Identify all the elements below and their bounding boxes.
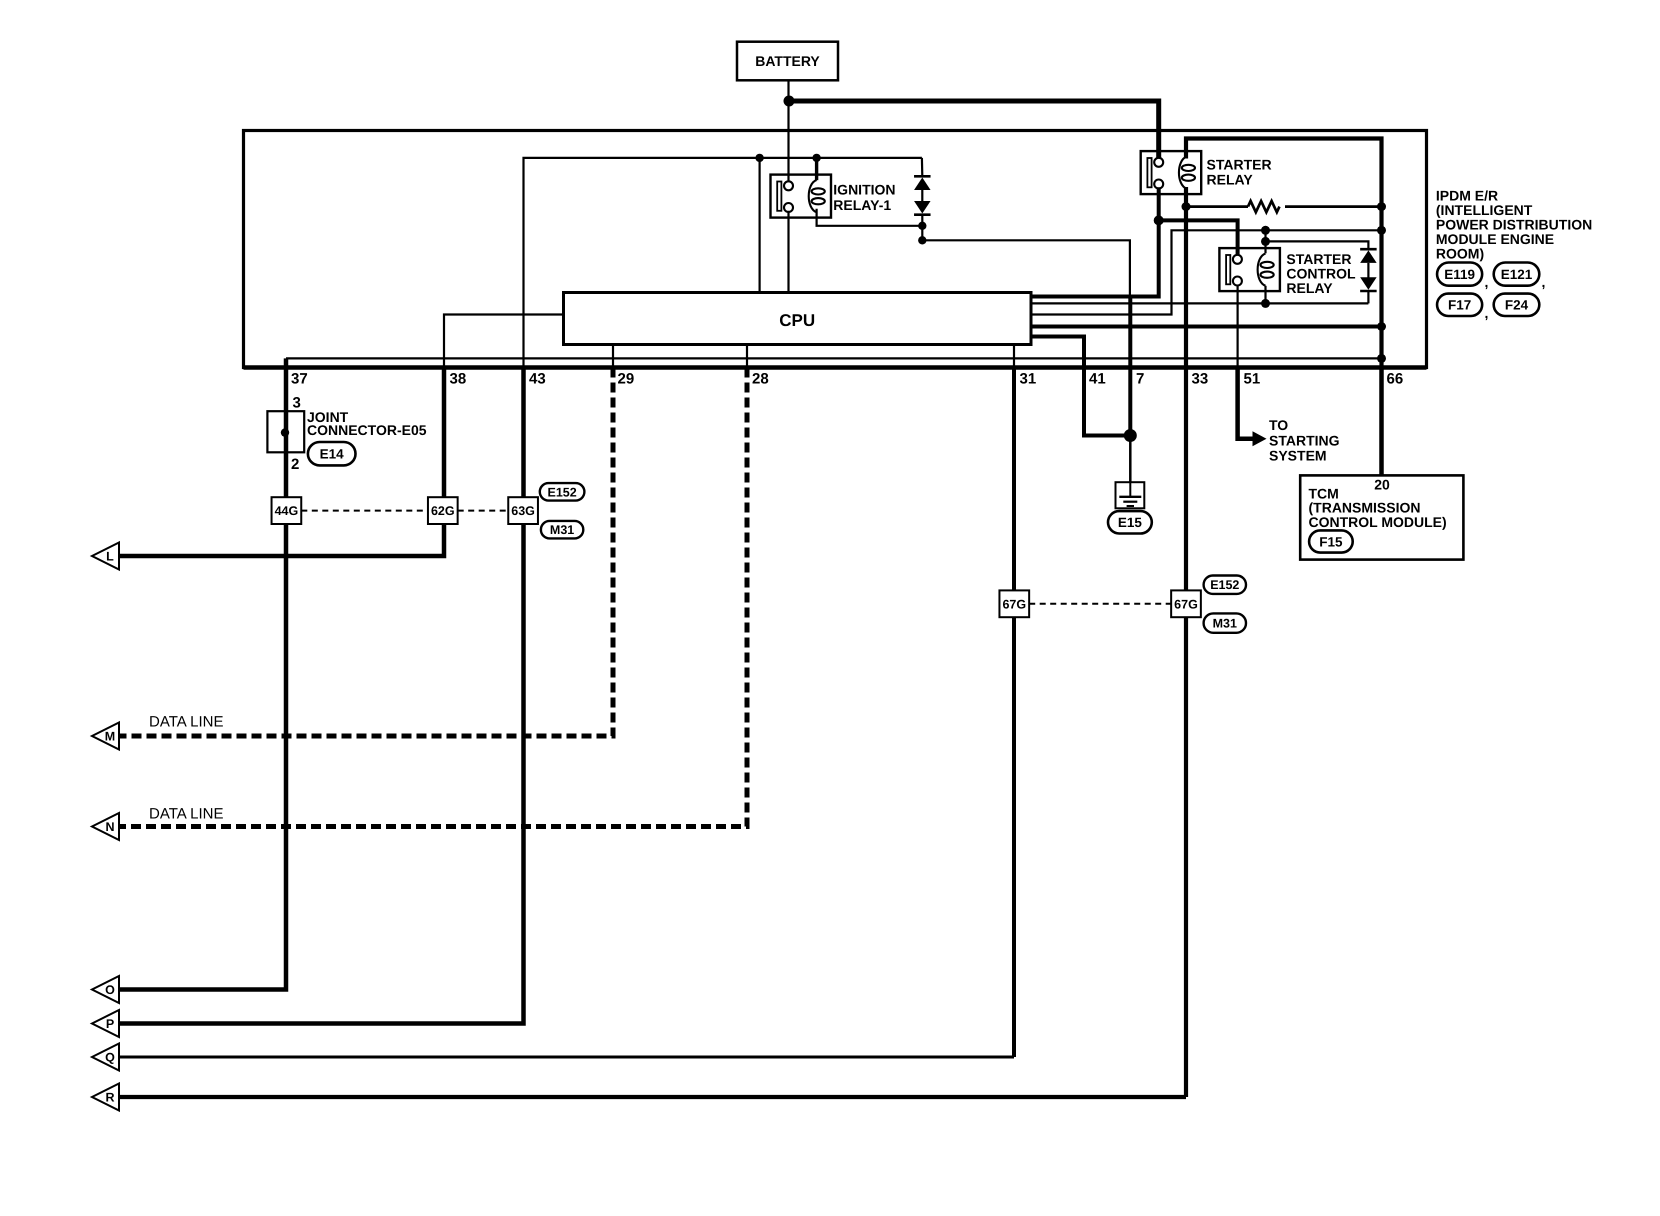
svg-text:CONNECTOR-E05: CONNECTOR-E05: [307, 422, 427, 438]
svg-text:51: 51: [1244, 371, 1261, 388]
svg-text:N: N: [105, 820, 114, 834]
svg-text:E152: E152: [547, 485, 576, 499]
svg-text:M: M: [105, 730, 115, 744]
svg-text:37: 37: [291, 371, 308, 388]
svg-text:CPU: CPU: [779, 311, 815, 330]
svg-text:,: ,: [1485, 305, 1489, 321]
svg-text:62G: 62G: [431, 504, 455, 518]
svg-text:E121: E121: [1501, 267, 1533, 282]
svg-text:IGNITION: IGNITION: [833, 182, 895, 198]
svg-text:E152: E152: [1210, 578, 1239, 592]
svg-text:Q: Q: [105, 1051, 115, 1065]
svg-text:TO: TO: [1269, 417, 1288, 433]
svg-text:F17: F17: [1448, 298, 1471, 313]
svg-text:O: O: [105, 983, 115, 997]
svg-text:L: L: [106, 550, 114, 564]
svg-text:F15: F15: [1319, 534, 1343, 549]
svg-text:41: 41: [1089, 371, 1106, 388]
svg-text:31: 31: [1020, 371, 1037, 388]
svg-text:M31: M31: [1213, 617, 1237, 631]
svg-text:2: 2: [291, 456, 299, 473]
svg-text:RELAY: RELAY: [1207, 172, 1254, 188]
svg-text:7: 7: [1136, 371, 1144, 388]
svg-text:33: 33: [1192, 371, 1209, 388]
svg-text:F24: F24: [1505, 298, 1529, 313]
svg-text:66: 66: [1387, 371, 1404, 388]
svg-text:20: 20: [1374, 476, 1390, 492]
svg-text:M31: M31: [550, 523, 574, 537]
svg-text:E119: E119: [1444, 267, 1475, 282]
svg-text:,: ,: [1542, 274, 1546, 290]
svg-text:E14: E14: [320, 447, 345, 462]
svg-text:BATTERY: BATTERY: [755, 53, 820, 69]
svg-text:63G: 63G: [511, 504, 535, 518]
svg-text:DATA LINE: DATA LINE: [149, 806, 223, 823]
svg-text:43: 43: [529, 371, 546, 388]
svg-text:ROOM): ROOM): [1436, 246, 1484, 262]
svg-text:67G: 67G: [1002, 597, 1026, 611]
svg-text:SYSTEM: SYSTEM: [1269, 448, 1327, 464]
svg-text:R: R: [105, 1091, 114, 1105]
svg-text:29: 29: [618, 371, 635, 388]
svg-text:,: ,: [1485, 274, 1489, 290]
svg-text:38: 38: [450, 371, 467, 388]
svg-text:RELAY-1: RELAY-1: [833, 197, 891, 213]
svg-text:STARTER: STARTER: [1207, 157, 1272, 173]
svg-text:3: 3: [293, 394, 301, 411]
svg-text:P: P: [106, 1017, 114, 1031]
svg-text:RELAY: RELAY: [1286, 280, 1333, 296]
svg-text:28: 28: [752, 371, 769, 388]
svg-text:67G: 67G: [1174, 597, 1198, 611]
svg-text:DATA LINE: DATA LINE: [149, 714, 223, 731]
svg-text:CONTROL MODULE): CONTROL MODULE): [1309, 514, 1447, 530]
svg-text:STARTING: STARTING: [1269, 432, 1340, 448]
svg-text:E15: E15: [1118, 515, 1143, 530]
svg-text:44G: 44G: [275, 504, 299, 518]
